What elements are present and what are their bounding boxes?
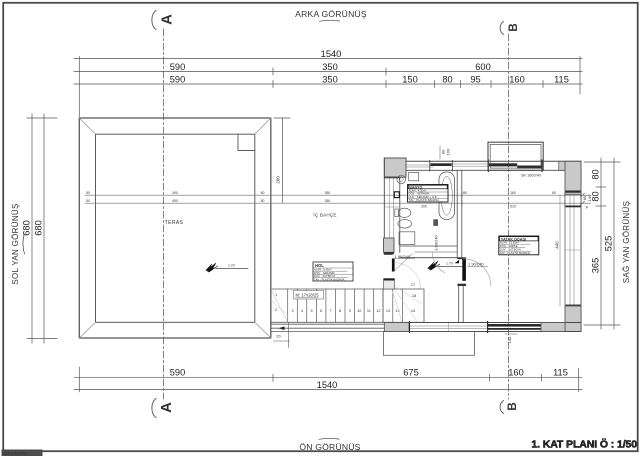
- watermark bar bottom-left: [2, 450, 43, 456]
- svg-text:1. KAT PLANI Ö : 1/50: 1. KAT PLANI Ö : 1/50: [531, 438, 637, 451]
- svg-text:600: 600: [475, 62, 491, 72]
- svg-text:675: 675: [403, 368, 419, 378]
- svg-text:İÇ BAHÇE: İÇ BAHÇE: [313, 212, 336, 218]
- window strip in right wall: [564, 194, 566, 306]
- svg-text:260: 260: [276, 176, 281, 184]
- hol entrance arrow: [428, 261, 462, 270]
- door leaf + swing arc (hol door): [395, 254, 413, 271]
- svg-text:80: 80: [591, 191, 601, 201]
- view title: SOL YAN GORUNUS (left, rotated): [11, 203, 25, 284]
- HOL label box: [313, 262, 353, 281]
- svg-text:350: 350: [322, 62, 338, 72]
- svg-text:ÖN GÖRÜNÜŞ: ÖN GÖRÜNÜŞ: [299, 442, 360, 452]
- svg-text:1: 1: [275, 293, 277, 297]
- svg-text:3.60/240: 3.60/240: [434, 234, 439, 250]
- sink: [397, 175, 406, 184]
- building left wall: [384, 158, 400, 255]
- top-left corner block: [384, 158, 406, 177]
- svg-text:50: 50: [261, 191, 265, 195]
- svg-text:SOL YAN GÖRÜNÜŞ: SOL YAN GÖRÜNÜŞ: [11, 203, 20, 284]
- svg-text:95: 95: [470, 75, 480, 85]
- column block at teras inner top-right corner: [238, 134, 255, 150]
- svg-text:680: 680: [34, 220, 44, 236]
- stair lower rail lines: [271, 324, 385, 331]
- stair tread numbers: [275, 283, 416, 313]
- window thin lines mid-top wall: [452, 163, 489, 165]
- balcony at top: [488, 142, 543, 170]
- svg-text:3: 3: [291, 309, 293, 313]
- window label right (80/140): [582, 194, 592, 210]
- top dimension row 3: 590 350 150 80 95 160 115: [74, 81, 582, 88]
- door opening caps: [458, 257, 467, 259]
- svg-text:80: 80: [442, 75, 452, 85]
- svg-text:350: 350: [322, 75, 338, 85]
- svg-text:1.20: 1.20: [228, 264, 235, 268]
- entrance arrow in teras: [206, 263, 248, 272]
- stair outline: [271, 289, 383, 322]
- svg-text:80: 80: [591, 169, 601, 179]
- svg-text:150: 150: [402, 75, 418, 85]
- small dark fixture below tub: [433, 219, 438, 226]
- svg-text:9: 9: [349, 309, 351, 313]
- svg-text:2: 2: [275, 308, 277, 312]
- long horizontal interior dimension line (lower): [85, 200, 583, 206]
- svg-text:1540: 1540: [321, 49, 342, 59]
- bedroom west wall lower segment: [459, 286, 464, 323]
- svg-text:SK 160/240: SK 160/240: [521, 173, 541, 177]
- YATAK ODASI label box: [499, 236, 539, 255]
- left dimension lines: 680 680: [27, 114, 57, 343]
- section line A (dashed vertical): [163, 29, 165, 399]
- svg-text:5: 5: [311, 309, 313, 313]
- svg-text:350: 350: [325, 191, 331, 195]
- svg-text:525: 525: [604, 236, 614, 252]
- window strip in left wall: [388, 177, 390, 238]
- winder lines at stair left end: [271, 289, 288, 322]
- svg-text:15: 15: [411, 309, 415, 313]
- svg-text:TeknikOfis: TeknikOfis: [3, 451, 27, 456]
- toilet: [395, 208, 411, 217]
- porch slab below building: [383, 332, 474, 356]
- svg-text:140: 140: [587, 194, 592, 201]
- svg-text:1.70: 1.70: [446, 262, 453, 266]
- svg-text:50: 50: [86, 191, 90, 195]
- window dim line inside bedroom (445): [559, 195, 561, 306]
- svg-text:ARKA GÖRÜNÜŞ: ARKA GÖRÜNÜŞ: [295, 9, 367, 19]
- door jamb (hol to ic bahce): [392, 259, 395, 272]
- window size label above building (80/160): [441, 148, 451, 155]
- svg-text:4: 4: [301, 309, 303, 313]
- door jamb (bedroom door): [462, 259, 466, 281]
- TERAS inner wall rectangle: [96, 134, 255, 322]
- section marker A bottom: [152, 399, 175, 418]
- grey wall segment below window (rounded bottom): [384, 238, 394, 255]
- top dimension row 2: 590 350 600: [74, 68, 582, 75]
- svg-text:SAĞ YAN GÖRÜNÜŞ: SAĞ YAN GÖRÜNÜŞ: [622, 201, 631, 283]
- building top wall: [384, 160, 581, 172]
- shower tray: [399, 232, 415, 245]
- svg-text:DUV. : SAT.BOYA: DUV. : SAT.BOYA: [500, 248, 521, 252]
- view title: ON GORUNUS (bottom): [299, 438, 360, 452]
- TERAS corner miters: [79, 118, 270, 338]
- svg-text:A: A: [158, 14, 175, 25]
- building bottom wall: [384, 322, 581, 333]
- svg-text:1540: 1540: [317, 380, 338, 390]
- section marker A top: [152, 11, 176, 30]
- svg-text:8: 8: [339, 309, 341, 313]
- long dim line right end marks: [581, 193, 591, 205]
- svg-text:200: 200: [421, 205, 427, 209]
- svg-text:13: 13: [386, 309, 390, 313]
- svg-text:20: 20: [276, 334, 281, 339]
- svg-text:DÖŞ. : PARKE: DÖŞ. : PARKE: [500, 244, 518, 248]
- dark frame bars at window mid: [566, 191, 581, 193]
- long horizontal interior dimension line (upper): [85, 192, 583, 198]
- first step 20cm mini dimension: [274, 323, 290, 348]
- banyo door swing arc: [432, 252, 445, 273]
- window end posts: [487, 160, 489, 172]
- view title: ARKA GORUNUS (top): [295, 9, 367, 21]
- svg-text:7: 7: [330, 309, 332, 313]
- ic bahce vertical dim line (right of teras): [274, 118, 290, 203]
- black fixture mark on left wall: [394, 192, 399, 198]
- svg-text:1 90/240: 1 90/240: [468, 262, 484, 267]
- building right wall: [565, 161, 581, 331]
- svg-text:17: 17: [411, 283, 415, 287]
- svg-text:P: P: [586, 205, 589, 210]
- svg-text:160: 160: [510, 191, 516, 195]
- svg-text:A: A: [158, 402, 175, 413]
- door swing arc (bedroom door): [464, 259, 491, 286]
- newel stub at stair top: [384, 279, 395, 289]
- svg-text:B: B: [507, 402, 519, 410]
- window thin lines top-left: [406, 164, 433, 166]
- section marker B bottom: [500, 401, 519, 414]
- svg-text:160: 160: [509, 75, 525, 85]
- door label 90/240 (bedroom): [455, 260, 460, 263]
- washing machine: [409, 173, 419, 181]
- svg-text:11: 11: [367, 309, 371, 313]
- right dimension lines: 80 80 365 / 525: [584, 158, 620, 329]
- svg-text:115: 115: [554, 75, 569, 85]
- svg-text:B: B: [508, 23, 520, 31]
- section marker B top: [500, 22, 520, 35]
- dark window sill bars: [431, 163, 452, 166]
- section line B (dashed vertical): [508, 34, 510, 399]
- bathtub: [439, 172, 455, 220]
- bottom dimension row 1: 590 675 160 115: [74, 367, 582, 392]
- svg-text:10: 10: [357, 309, 361, 313]
- svg-text:590: 590: [170, 62, 186, 72]
- svg-text:12: 12: [376, 309, 380, 313]
- stair walk-line arrowhead: [279, 326, 285, 330]
- svg-text:ALAN : 15.60m²: ALAN : 15.60m²: [500, 241, 519, 245]
- svg-text:160: 160: [508, 368, 524, 378]
- banyo south wall: [400, 246, 457, 258]
- svg-text:490: 490: [172, 191, 178, 195]
- svg-text:590: 590: [170, 75, 186, 85]
- svg-text:100: 100: [507, 336, 512, 343]
- svg-text:TERAS: TERAS: [165, 220, 184, 226]
- svg-text:80: 80: [552, 191, 556, 195]
- svg-text:445: 445: [555, 241, 560, 249]
- svg-text:1 90/240: 1 90/240: [395, 254, 411, 259]
- svg-text:515: 515: [510, 205, 516, 209]
- winder fan lines: [390, 283, 424, 322]
- svg-text:6: 6: [320, 309, 322, 313]
- svg-text:350: 350: [325, 199, 331, 203]
- bidet: [398, 220, 412, 229]
- svg-text:HOL: HOL: [315, 263, 324, 268]
- svg-text:160: 160: [446, 148, 451, 155]
- svg-text:590: 590: [170, 368, 186, 378]
- stair treads: [288, 289, 374, 322]
- svg-text:50: 50: [86, 199, 90, 203]
- svg-text:365: 365: [591, 258, 601, 274]
- BANYO label box: [408, 185, 449, 203]
- winder box inside building: [383, 289, 424, 322]
- bottom dimension row 2: 1540: [74, 389, 582, 391]
- grey wall corner segment right: [559, 161, 581, 170]
- svg-text:490: 490: [172, 199, 178, 203]
- svg-text:115: 115: [553, 368, 568, 378]
- svg-text:50: 50: [261, 199, 265, 203]
- interior wall between hol and bedroom: [457, 170, 462, 258]
- svg-text:80: 80: [463, 191, 467, 195]
- top dimension row 1: 1540: [74, 57, 582, 118]
- svg-text:680: 680: [22, 220, 32, 236]
- stair label M 17x18/25: [294, 291, 324, 300]
- TERAS outer wall rectangle: [79, 118, 270, 338]
- view title: SAG YAN GORUNUS (right, rotated): [622, 201, 631, 283]
- svg-text:M: 17x18/25: M: 17x18/25: [296, 293, 320, 298]
